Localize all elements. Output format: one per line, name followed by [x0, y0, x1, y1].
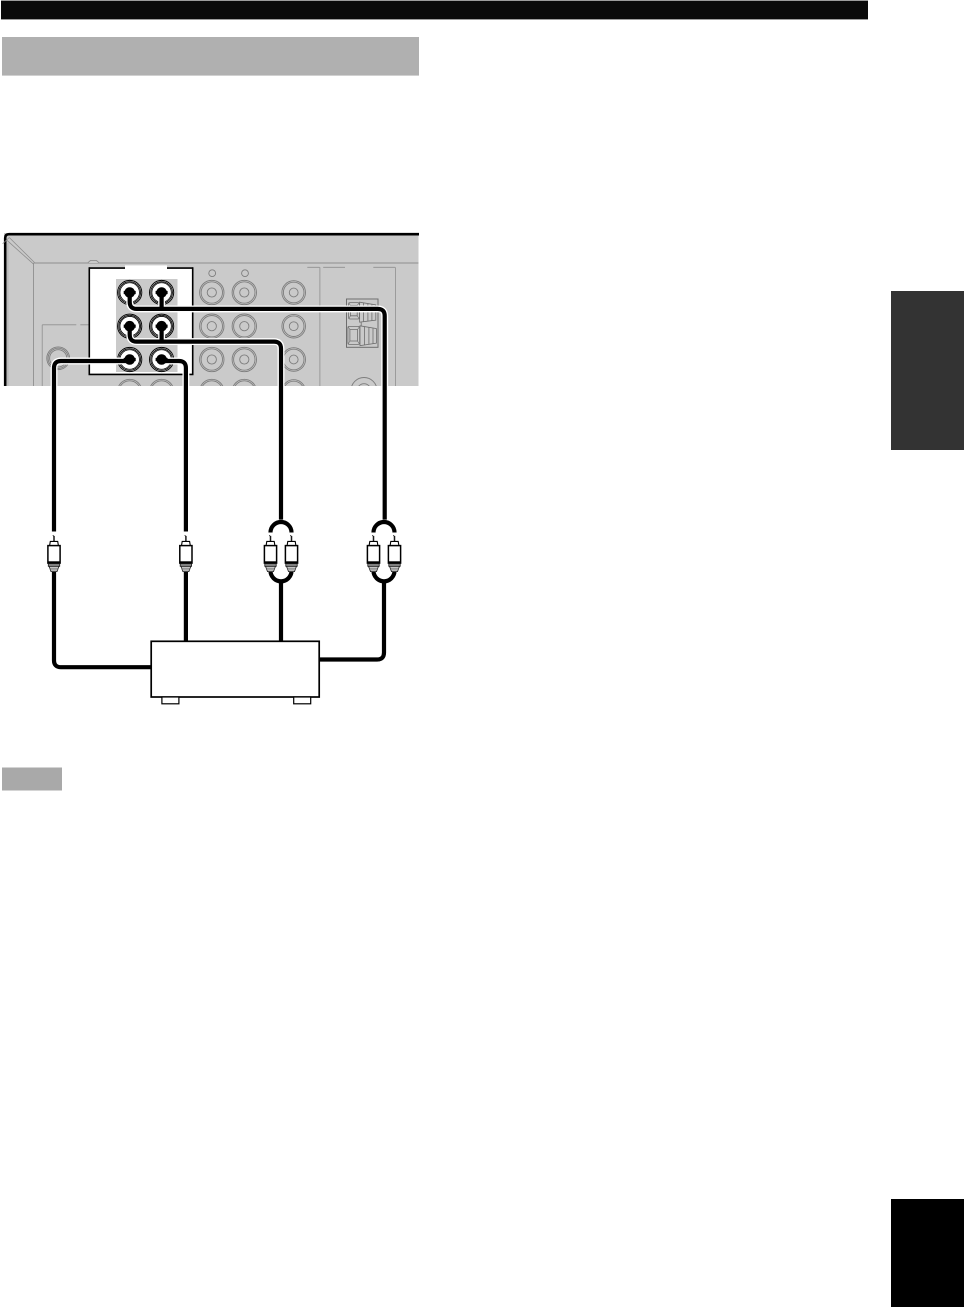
DVD player box	[151, 641, 319, 697]
jack VIDEO row3 left	[118, 347, 142, 371]
RCA jack grid col3 row1	[282, 281, 306, 305]
plugged connector row1 left	[124, 287, 136, 298]
jack AUDIO R (row1 right)	[150, 280, 174, 304]
RCA jack row4 under DVD group left (clipped)	[118, 379, 142, 403]
chamfer diagonals	[7, 240, 34, 264]
RCA jack grid col2 row4 (clipped)	[232, 379, 256, 403]
RCA jack grid col1 row1	[200, 280, 224, 304]
RCA jack grid col3 row3	[282, 348, 306, 372]
wire casing run B1	[130, 325, 281, 520]
wire casing run A1	[130, 291, 385, 520]
note label gray box	[2, 768, 62, 791]
RCA jack grid col1 row2	[200, 314, 224, 338]
wire casing run F	[318, 583, 385, 660]
RCA jack grid col3 row2	[282, 314, 306, 338]
wire audio pair row2 to cable 3	[130, 325, 281, 520]
wire plug 2 to DVD box top	[184, 571, 188, 643]
RCA jack grid col2 row3	[232, 347, 256, 371]
left round connector	[47, 347, 70, 370]
cable pair arch 4	[374, 522, 395, 533]
plugged connector row3 left	[124, 354, 136, 365]
inset gray behind jacks	[116, 279, 178, 372]
section title gray bar	[2, 37, 419, 76]
plugged connector row1 right	[156, 287, 168, 298]
wire audio pair row1 to cable 4	[130, 291, 385, 520]
section divider segments	[307, 266, 395, 268]
wire branch row2 right jack	[160, 325, 164, 342]
DVD player foot right	[294, 697, 311, 704]
wire cable 4 pair to DVD box right	[318, 583, 385, 660]
top header black bar	[1, 1, 868, 20]
RCA jack row4 under DVD group right (clipped)	[149, 379, 173, 403]
right edge chapter tab	[891, 291, 964, 450]
jack VIDEO row3 right	[150, 347, 174, 371]
panel outer border top+left	[5, 234, 419, 386]
screw hole left	[209, 270, 216, 277]
cable pair loop 3	[271, 571, 292, 582]
DVD player foot left	[162, 697, 179, 704]
wire plug 1 to DVD box left	[54, 571, 153, 667]
wire branch row1 right jack	[160, 291, 164, 309]
wire casing run C1	[54, 361, 131, 532]
plugged connector row2 left	[124, 321, 136, 332]
screw hole right	[242, 270, 249, 277]
jack row2 right	[150, 314, 174, 338]
speaker terminal block	[347, 299, 379, 347]
plugged connector row3 right	[156, 354, 168, 365]
jack row2 left	[118, 314, 142, 338]
RCA plug cable 2	[180, 535, 192, 572]
wire casing run E	[278, 583, 285, 643]
bottom-right page corner black box	[891, 1199, 964, 1307]
screw bump on inner line	[88, 260, 100, 263]
panel body	[4, 233, 419, 386]
RCA plug cable 3 right	[285, 535, 297, 572]
RCA jack grid col3 row4 (clipped)	[282, 380, 306, 404]
gray RCA jack grid	[118, 280, 306, 403]
inner face left vertical	[33, 263, 35, 386]
speaker terminal block outline	[347, 299, 379, 347]
wire casing run D1	[162, 361, 186, 532]
RCA jack grid col1 row4 (clipped)	[200, 379, 224, 403]
wire casing run C2	[54, 571, 153, 667]
RCA jack grid col2 row1	[232, 280, 256, 304]
sub section corner lines lower-left	[42, 324, 89, 326]
RCA jack grid col2 row2	[232, 314, 256, 338]
box borders with top label gap	[89, 267, 192, 269]
label tab white notch	[125, 265, 167, 269]
wire video row3 right to plug 2	[162, 361, 186, 532]
wire cable 3 pair to DVD box top	[279, 583, 283, 643]
bottom-right round connector (clipped)	[351, 378, 377, 404]
wire casing run B2	[158, 325, 165, 342]
wire video row3 left to plug 1	[54, 361, 131, 532]
RCA jack grid col1 row3	[200, 347, 224, 371]
cable pair arch 3	[271, 522, 292, 533]
RCA plug cable 1	[48, 535, 60, 572]
jack AUDIO L (row1 left)	[118, 280, 142, 304]
plugged connector row2 right	[156, 321, 168, 332]
wire casing run D2	[182, 571, 189, 643]
bottom spring clamp	[348, 326, 360, 344]
top spring clamp	[349, 303, 360, 319]
inner top face line	[34, 262, 419, 264]
left face inner line	[7, 243, 9, 386]
cable pair loop 4	[374, 571, 395, 582]
RCA plug cable 3 left	[264, 535, 276, 572]
corner facet	[3, 237, 10, 243]
RCA plug cable 4 right	[388, 535, 400, 572]
wire casing run A2	[158, 291, 165, 309]
RCA plug cable 4 left	[367, 535, 379, 572]
